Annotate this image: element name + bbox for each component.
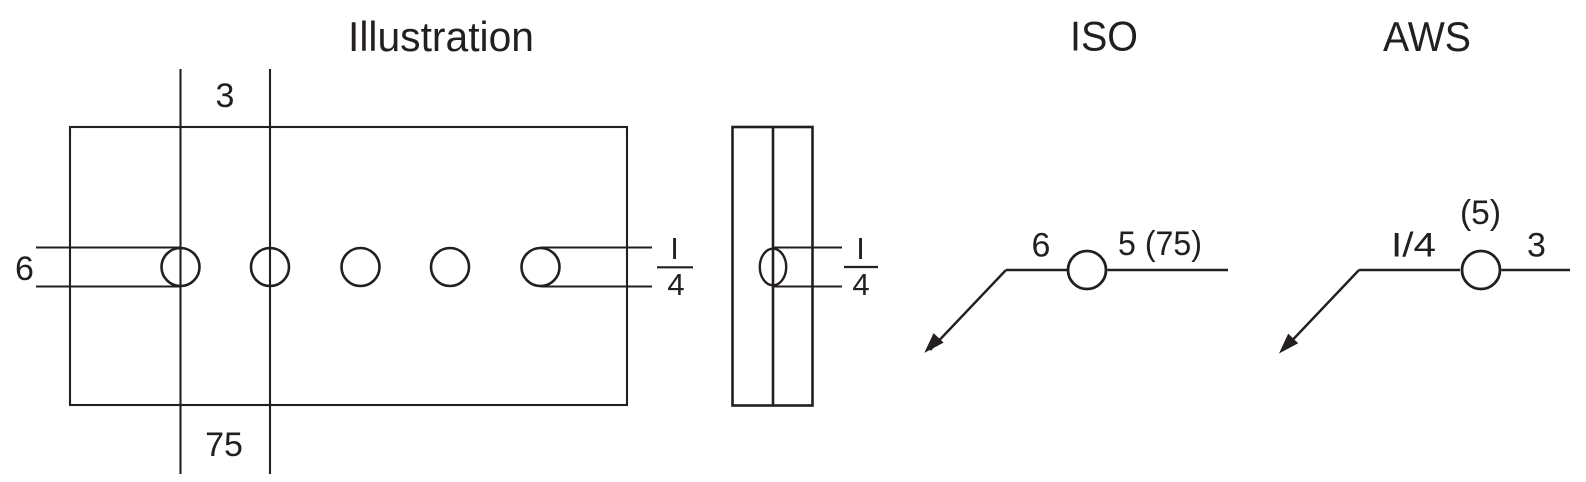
- section line right vertical: [269, 69, 271, 474]
- slot hole circle 2: [251, 248, 289, 286]
- ISO reference line right segment: [1108, 269, 1229, 271]
- AWS reference line right segment: [1502, 269, 1571, 271]
- AWS leader line: [1284, 270, 1359, 349]
- svg-text:(5): (5): [1460, 194, 1501, 232]
- fraction 1/4 bar (side view): [844, 266, 878, 268]
- front view plate outline: [70, 127, 627, 405]
- fraction 1/4 bar (front view): [657, 266, 693, 268]
- section line left vertical: [179, 69, 181, 474]
- slot hole circle 5: [522, 248, 560, 286]
- svg-text:5 (75): 5 (75): [1118, 225, 1202, 263]
- svg-text:4: 4: [852, 267, 869, 302]
- side view extension line top: [773, 246, 842, 248]
- slot depth extension line bottom-right: [541, 285, 653, 287]
- ISO reference line left segment: [1006, 269, 1067, 271]
- svg-text:3: 3: [216, 77, 235, 115]
- slot hole circle 1: [162, 248, 200, 286]
- slot depth extension line top-right: [541, 246, 653, 248]
- AWS plug weld symbol circle: [1462, 251, 1500, 289]
- side view joint line: [772, 127, 775, 406]
- slot width extension line bottom-left: [36, 285, 181, 287]
- svg-text:Illustration: Illustration: [348, 13, 534, 60]
- svg-text:4: 4: [667, 267, 684, 302]
- svg-text:6: 6: [15, 250, 34, 288]
- slot hole circle 4: [431, 248, 469, 286]
- ISO plug weld symbol circle: [1068, 251, 1106, 289]
- AWS leader arrowhead: [1279, 334, 1298, 354]
- svg-text:I: I: [856, 231, 865, 266]
- svg-text:AWS: AWS: [1383, 13, 1471, 60]
- svg-text:6: 6: [1032, 227, 1051, 265]
- side view plate outline: [733, 127, 813, 406]
- slot hole circle 3: [342, 248, 380, 286]
- AWS reference line left segment: [1359, 269, 1460, 271]
- side view extension line bottom: [773, 285, 842, 287]
- svg-text:75: 75: [205, 426, 243, 464]
- ISO leader arrowhead: [924, 333, 943, 353]
- svg-text:ISO: ISO: [1070, 13, 1138, 60]
- ISO leader line: [930, 270, 1006, 350]
- slot width extension line top-left: [36, 246, 181, 248]
- svg-text:I/4: I/4: [1391, 227, 1436, 265]
- svg-text:I: I: [670, 231, 679, 266]
- svg-text:3: 3: [1527, 227, 1546, 265]
- side view slot ellipse: [760, 249, 786, 286]
